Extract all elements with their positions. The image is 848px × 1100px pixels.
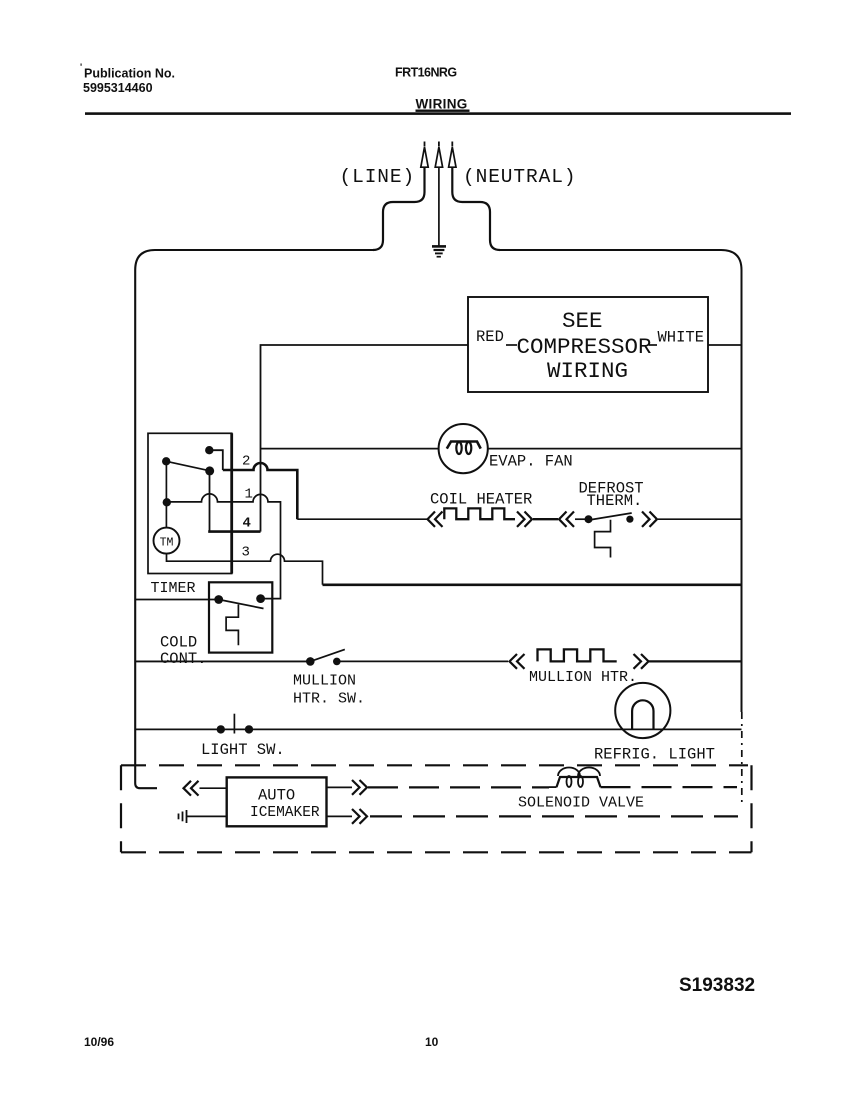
svg-text:Publication No.: Publication No. [84, 67, 175, 81]
wire: terminal 2 from dot to thick run [209, 450, 223, 470]
svg-text:RED: RED [476, 328, 504, 346]
timer box [148, 433, 232, 573]
svg-text:WIRING: WIRING [416, 97, 468, 112]
wire: mullion switch to heater [337, 660, 508, 662]
wire: icemaker top output stub [327, 786, 353, 788]
wire: evap fan line right segment to neutral bus [488, 448, 742, 450]
wire: WHITE tie segment inside box [649, 344, 657, 346]
auto icemaker box [227, 777, 327, 826]
wire: solenoid valve line dashed right part [601, 786, 738, 788]
connector arrows before coil heater [428, 512, 443, 527]
svg-text:COIL HEATER: COIL HEATER [430, 491, 532, 509]
svg-text:SOLENOID VALVE: SOLENOID VALVE [518, 795, 644, 812]
wire: RED compressor feed from node down to timer terminal 4 bus [261, 345, 469, 532]
svg-text:MULLION HTR.: MULLION HTR. [529, 669, 637, 686]
svg-text:THERM.: THERM. [587, 492, 643, 510]
plug prong arrow NEUTRAL [449, 142, 456, 168]
connector arrows after mullion heater [634, 654, 649, 669]
wire: stub to defrost thermostat [575, 518, 588, 520]
wire: icemaker ground lead [187, 815, 227, 817]
light switch actuator [233, 714, 235, 734]
connector arrows icemaker bottom output [352, 809, 367, 824]
svg-text:LIGHT SW.: LIGHT SW. [201, 741, 285, 759]
wire: icemaker bottom output stub [327, 815, 353, 817]
svg-text:1: 1 [245, 487, 253, 503]
wire: terminal 3 thick run to neutral bus [323, 583, 742, 586]
wire: WHITE from compressor box to neutral bus [708, 344, 742, 346]
wire: RED tie segment inside box [506, 344, 517, 346]
defrost thermostat arm [586, 513, 632, 521]
svg-text:REFRIG. LIGHT: REFRIG. LIGHT [594, 746, 715, 764]
label SEE COMPRESSOR WIRING [517, 308, 652, 384]
connector arrows before defrost thermostat [559, 512, 574, 527]
wire: terminal 2 thick run with hop over RED bus, down to defrost row [223, 463, 297, 519]
svg-text:WIRING: WIRING [547, 358, 628, 384]
wire: timer pivot to terminal 1 and TM motor [165, 461, 167, 527]
refrigerator light filament [632, 700, 653, 729]
light switch right contact dot [245, 725, 253, 733]
cold control switch arm [219, 600, 264, 609]
wire: terminal 1 line with hops, down to cold control [167, 494, 281, 599]
wire: mullion heater switch feed from line bus [135, 660, 310, 662]
wire: NEUTRAL prong S-curve into top edge [452, 168, 500, 251]
header publication text [80, 62, 175, 95]
svg-text:(LINE): (LINE) [340, 166, 416, 188]
wire: icemaker bottom output dashed [370, 815, 738, 817]
label MULLION HTR. SW. [293, 673, 365, 708]
solenoid valve coil [557, 768, 601, 788]
dashed icemaker option box [121, 765, 752, 852]
wire: terminal 3 from TM motor with hop, down to thick neutral-return run [167, 554, 323, 585]
evap fan motor winding [447, 442, 481, 455]
defrost thermostat right contact dot [626, 516, 633, 523]
wire: terminal 4 loop from dot down and right to RED bus [208, 471, 260, 532]
label AUTO ICEMAKER [250, 787, 320, 822]
svg-text:ICEMAKER: ICEMAKER [250, 805, 320, 821]
svg-text:AUTO: AUTO [258, 787, 295, 805]
svg-text:': ' [80, 62, 82, 72]
compressor box [468, 297, 708, 392]
wire: cold control feed from line bus [135, 599, 215, 601]
mullion heater switch right contact dot [333, 658, 341, 666]
connector arrows after coil heater [517, 512, 532, 527]
connector arrows icemaker feed [184, 781, 199, 796]
svg-text:4: 4 [243, 516, 251, 532]
wire: evap fan line left segment [261, 448, 439, 450]
wire: solenoid valve line dashed left part [368, 786, 549, 788]
evap fan motor M1 circle [439, 424, 488, 473]
svg-text:HTR. SW.: HTR. SW. [293, 691, 365, 708]
svg-text:10: 10 [425, 1035, 439, 1049]
timer terminal 4 contact dot [205, 466, 214, 475]
cold control capillary zigzag [226, 605, 238, 646]
mullion heater switch arm [310, 649, 345, 661]
timer terminal 1 contact dot [163, 498, 171, 506]
svg-text:MULLION: MULLION [293, 673, 356, 690]
header horizontal rule [85, 112, 791, 115]
svg-text:10/96: 10/96 [84, 1035, 114, 1049]
mullion heater switch left contact dot [306, 657, 315, 666]
cold control right contact dot [256, 594, 265, 603]
light switch left contact dot [217, 725, 225, 733]
svg-text:5995314460: 5995314460 [83, 81, 153, 95]
svg-text:CONT.: CONT. [160, 650, 207, 668]
timer motor TM circle [154, 528, 180, 554]
wire: LINE prong S-curve into top edge [373, 168, 425, 251]
timer terminal pivot contact dot [162, 457, 170, 465]
svg-text:COMPRESSOR: COMPRESSOR [517, 334, 652, 360]
svg-text:WHITE: WHITE [658, 329, 705, 347]
ground symbol (earth) [432, 246, 446, 256]
mullion heater element [538, 649, 617, 661]
connector arrows before mullion heater [510, 654, 525, 669]
refrigerator light bulb circle [615, 683, 670, 738]
timer switch wiper arm [166, 461, 210, 471]
svg-text:TM: TM [160, 537, 174, 550]
wire: mullion heater to neutral bus [649, 660, 742, 662]
coil heater element [444, 508, 515, 519]
defrost thermostat sensing element staircase [595, 520, 611, 558]
header WIRING title [416, 97, 470, 112]
cold control left contact dot [214, 595, 223, 604]
plug prong arrow LINE [421, 142, 428, 168]
wire: right edge dash-dot continuation into icemaker area [741, 712, 743, 804]
svg-text:3: 3 [242, 545, 250, 561]
cold control box [209, 582, 272, 652]
wire: icemaker feed stub [200, 787, 227, 789]
svg-text:FRT16NRG: FRT16NRG [395, 66, 457, 80]
wire: ground prong lead [438, 168, 440, 246]
svg-text:COLD: COLD [160, 634, 197, 652]
wire: line under solenoid [549, 786, 557, 788]
label COLD CONT. [160, 634, 207, 669]
wire: defrost row from terminal 2 to coil heater [297, 518, 427, 520]
wire: outer top edge right + right edge (neutral bus) [500, 250, 742, 712]
svg-text:SEE: SEE [562, 308, 603, 334]
svg-text:(NEUTRAL): (NEUTRAL) [463, 166, 576, 188]
icemaker ground symbol [179, 810, 187, 823]
plug prong arrow ground (middle) [435, 142, 442, 168]
svg-text:EVAP. FAN: EVAP. FAN [489, 453, 573, 471]
svg-text:2: 2 [242, 454, 250, 470]
svg-text:S193832: S193832 [679, 975, 755, 996]
defrost thermostat left contact dot [585, 515, 593, 523]
wire: segment between coil heater and defrost thermostat [533, 518, 558, 520]
wire: refrigerator light line [135, 728, 741, 730]
svg-text:TIMER: TIMER [151, 580, 196, 597]
wire: outer top edge left + left edge down to icemaker corner [135, 250, 373, 788]
connector arrows after defrost thermostat [642, 512, 657, 527]
connector arrows icemaker top output [352, 780, 367, 795]
label DEFROST THERM. [579, 480, 644, 511]
wire: defrost row to neutral bus [658, 518, 742, 520]
timer terminal 2 contact dot [205, 446, 213, 454]
